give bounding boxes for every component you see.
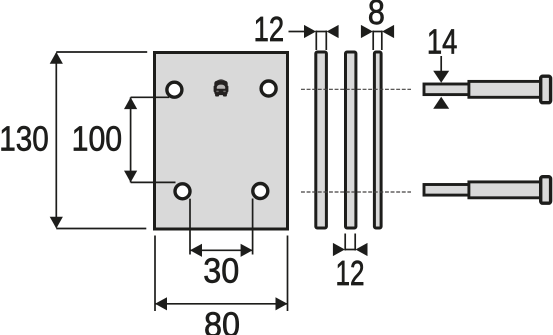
arrow 30 right (241, 244, 253, 257)
dimension 8 (373, 31, 382, 51)
spacer bar 2 (346, 52, 356, 228)
arrow 12 top left (304, 25, 316, 38)
spacer bar 1 (316, 52, 327, 228)
centerline upper (301, 88, 411, 90)
arrow 130 top (50, 52, 63, 64)
arrow 14 bottom (433, 97, 449, 109)
arrow 30 left (190, 244, 202, 257)
arrow 100 top (124, 97, 137, 109)
svg-text:30: 30 (203, 252, 239, 291)
hole top-left (167, 82, 182, 97)
dimension 80 (155, 236, 288, 312)
arrow 80 right (276, 297, 288, 310)
hole bottom-left (175, 184, 190, 199)
svg-text:12: 12 (254, 10, 285, 49)
dimension 30 (190, 199, 253, 255)
dimension 14 (440, 56, 442, 71)
svg-text:8: 8 (368, 0, 385, 32)
arrow 130 bottom (50, 217, 63, 229)
spacer bar 3 (374, 52, 381, 228)
arrow 12 bottom left (333, 243, 345, 256)
hole bottom-right (253, 184, 268, 199)
arrow 8 right (382, 25, 394, 38)
svg-text:130: 130 (0, 120, 49, 159)
dimension 12 bottom (345, 234, 355, 251)
svg-text:12: 12 (336, 254, 365, 293)
dimension 12 top (289, 31, 327, 51)
bolt 2 (424, 177, 551, 204)
car icon (214, 79, 229, 96)
mounting plate (155, 53, 288, 230)
svg-text:14: 14 (427, 23, 458, 62)
arrow 8 left (361, 25, 373, 38)
arrow 80 left (155, 297, 167, 310)
hole top-right (261, 81, 276, 96)
arrow 14 top (433, 71, 449, 83)
arrow 12 bottom right (356, 243, 368, 256)
arrow 12 top right (327, 25, 339, 38)
svg-text:100: 100 (72, 120, 123, 159)
dimension 100 (131, 97, 176, 182)
dimension 130 (56, 52, 147, 229)
arrow 100 bottom (124, 171, 137, 183)
centerline lower (301, 191, 411, 193)
bolt 1 (424, 76, 551, 103)
svg-text:80: 80 (204, 306, 240, 335)
